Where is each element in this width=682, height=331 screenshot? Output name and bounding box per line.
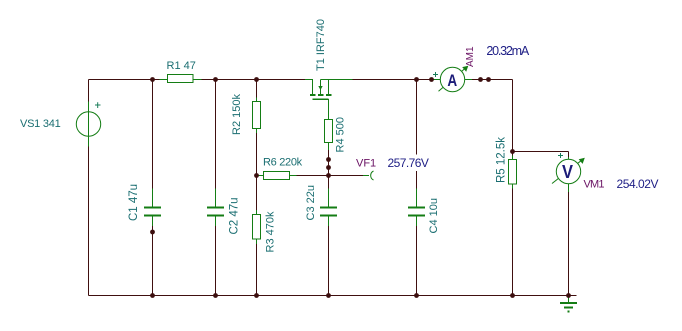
wire top rail right of T1 (source node to ammeter) xyxy=(353,79,435,81)
voltage source VS1 xyxy=(20,102,101,147)
junction C4 top xyxy=(414,77,419,82)
wire ammeter output to corner xyxy=(465,79,513,81)
wire top rail left (node VS1+ / R1 left) xyxy=(89,79,306,81)
junction ammeter output b xyxy=(486,77,491,82)
junction ammeter output a xyxy=(478,77,483,82)
wire R2 R3 branch xyxy=(256,80,258,296)
junction R6 left / R2 R3 node xyxy=(254,173,259,178)
junction R4 bottom a xyxy=(326,157,331,162)
junction bottom rail C2 xyxy=(213,293,218,298)
junction gate node (R6 right / VF1 / C3) xyxy=(326,173,331,178)
junction bottom rail ground / VM1 xyxy=(566,293,571,298)
junction bottom rail C3 xyxy=(326,293,331,298)
junction C1 bottom lead xyxy=(150,230,155,235)
voltmeter VM1 xyxy=(552,153,604,192)
svg-text:R6 220k: R6 220k xyxy=(263,157,303,169)
voltage pin probe VF1 xyxy=(356,158,376,181)
wire R6 row xyxy=(257,175,329,177)
wire VM1 branch xyxy=(568,152,570,296)
svg-text:VF1: VF1 xyxy=(356,158,376,170)
transistor T1 IRF740 MOSFET xyxy=(305,19,353,119)
svg-text:C3 22u: C3 22u xyxy=(305,185,317,220)
capacitor C3 xyxy=(305,185,337,226)
resistor R3 xyxy=(253,210,277,253)
svg-text:257.76V: 257.76V xyxy=(388,156,429,170)
wire left branch (VS1 vertical) xyxy=(88,80,90,296)
ammeter AM1 xyxy=(433,46,476,92)
junction R5 top / VM1 tap xyxy=(510,149,515,154)
wire C1 branch xyxy=(152,80,154,296)
capacitor C2 xyxy=(207,189,241,235)
svg-text:C4 10u: C4 10u xyxy=(428,198,440,233)
resistor R2 xyxy=(231,94,261,135)
junction bottom rail R5 xyxy=(510,293,515,298)
junction R2 top xyxy=(254,77,259,82)
wire bottom ground rail xyxy=(89,295,577,297)
svg-text:20.32mA: 20.32mA xyxy=(486,44,529,58)
wire R4 to C3 branch xyxy=(328,150,330,296)
junction bottom rail R3 xyxy=(254,293,259,298)
resistor R6 xyxy=(259,157,303,180)
junction C1 top xyxy=(150,77,155,82)
wire C2 branch xyxy=(215,80,217,296)
junction C2 top xyxy=(213,77,218,82)
svg-text:R2 150k: R2 150k xyxy=(231,94,243,135)
svg-text:C2 47u: C2 47u xyxy=(229,197,241,234)
ground xyxy=(560,296,577,312)
svg-text:R3 470k: R3 470k xyxy=(265,211,277,252)
svg-text:T1 IRF740: T1 IRF740 xyxy=(315,19,327,71)
resistor R1 xyxy=(160,60,202,83)
svg-text:R4 500: R4 500 xyxy=(335,117,347,152)
wire VF1 stub xyxy=(329,175,364,177)
svg-text:C1 47u: C1 47u xyxy=(128,184,140,221)
junction R4 bottom b xyxy=(326,165,331,170)
svg-text:AM1: AM1 xyxy=(465,46,476,67)
svg-text:VM1: VM1 xyxy=(584,179,605,191)
junction ammeter input xyxy=(429,77,434,82)
wire C4 branch xyxy=(416,80,418,296)
resistor R4 xyxy=(325,117,347,152)
resistor R5 xyxy=(496,137,517,189)
svg-text:254.02V: 254.02V xyxy=(617,177,659,191)
capacitor C4 xyxy=(408,189,440,234)
junction bottom rail C1 xyxy=(150,293,155,298)
value label VF1 257.76V xyxy=(384,155,431,172)
capacitor C1 xyxy=(128,184,161,226)
svg-text:R1 47: R1 47 xyxy=(167,60,196,72)
wire R5 branch with corner and run to VM1 xyxy=(513,80,569,296)
svg-text:A: A xyxy=(447,72,457,90)
junction bottom rail C4 xyxy=(414,293,419,298)
svg-text:VS1 341: VS1 341 xyxy=(20,118,61,130)
svg-text:R5 12.5k: R5 12.5k xyxy=(496,137,508,183)
svg-text:V: V xyxy=(562,162,573,182)
